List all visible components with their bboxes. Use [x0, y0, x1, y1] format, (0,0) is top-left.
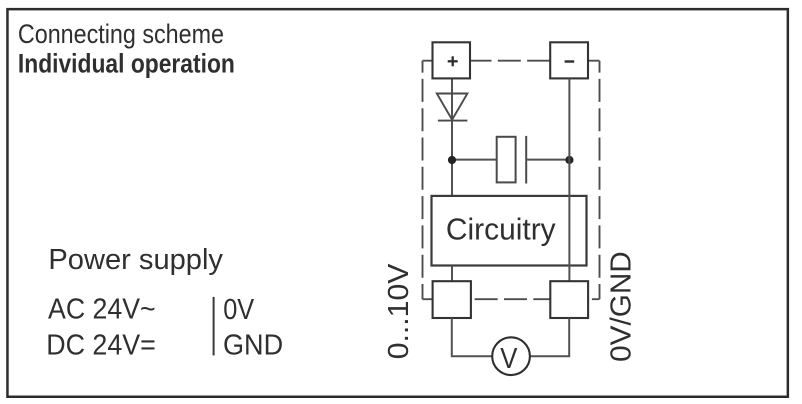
- svg-text:Connecting scheme: Connecting scheme: [18, 20, 224, 50]
- svg-text:Circuitry: Circuitry: [446, 214, 557, 247]
- svg-text:AC 24V~: AC 24V~: [48, 293, 156, 325]
- wire: voltmeter to right output terminal: [530, 318, 569, 356]
- diode (reverse polarity protection): [437, 94, 468, 121]
- voltmeter V: [492, 337, 530, 375]
- label: AC 24V~: [48, 293, 156, 325]
- title: Connecting scheme: [18, 20, 224, 50]
- svg-text:0...10V: 0...10V: [382, 263, 414, 359]
- svg-text:Power supply: Power supply: [48, 244, 223, 276]
- wire: capacitor right lead: [526, 159, 569, 161]
- device outline (dashed enclosure): [423, 61, 600, 300]
- title: Individual operation: [18, 49, 235, 79]
- circuitry block: [432, 196, 587, 266]
- divider bar between supply and net names: [213, 297, 215, 356]
- svg-text:0V/GND: 0V/GND: [605, 251, 638, 362]
- node: right rail junction: [565, 156, 573, 164]
- svg-text:V: V: [500, 342, 518, 375]
- wire: − terminal to bottom terminal (right rail, passes through block): [568, 78, 570, 281]
- terminal: − input: [550, 42, 588, 78]
- capacitor (polarized, box plate + line plate): [497, 136, 527, 184]
- net label: GND: [223, 329, 283, 361]
- svg-text:DC 24V=: DC 24V=: [46, 328, 156, 360]
- svg-text:0V: 0V: [223, 292, 254, 325]
- net label: 0V: [223, 292, 254, 325]
- wire: left output terminal to voltmeter: [452, 318, 492, 356]
- wire: circuitry bottom to left output terminal: [451, 266, 453, 282]
- svg-text:GND: GND: [223, 329, 283, 361]
- node: left rail junction: [448, 156, 456, 164]
- terminal: output signal (bottom left): [433, 281, 471, 318]
- label: Power supply: [48, 244, 223, 276]
- label: DC 24V=: [46, 328, 156, 360]
- svg-text:Individual operation: Individual operation: [18, 49, 235, 79]
- net label: 0V/GND (rotated): [605, 251, 638, 362]
- wire: + terminal to circuitry (left rail): [451, 78, 453, 195]
- terminal: output ground (bottom right): [550, 281, 588, 318]
- wire: capacitor left lead: [452, 159, 497, 161]
- terminal: + input: [433, 42, 471, 78]
- net label: 0...10V (rotated): [382, 263, 414, 359]
